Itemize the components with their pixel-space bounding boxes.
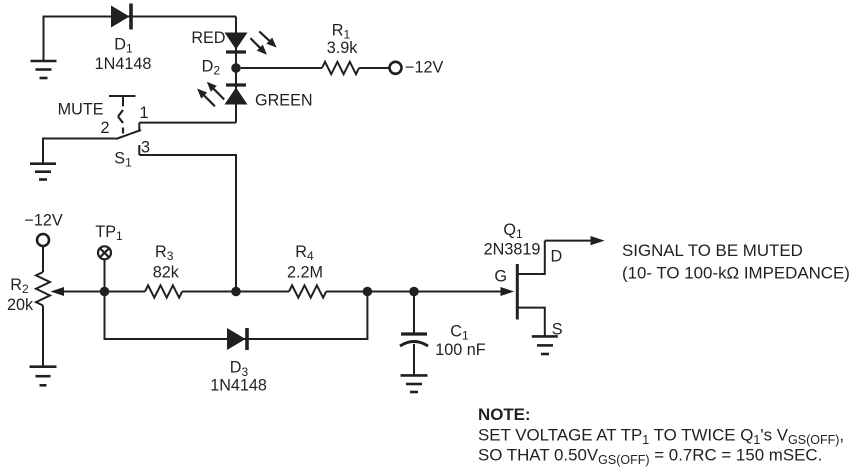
wire D3 branch xyxy=(105,292,368,340)
ground below S1 xyxy=(30,164,56,180)
node TP1 junction dot xyxy=(100,287,110,297)
transistor Q1 gate arrow xyxy=(501,287,515,296)
svg-text:R3: R3 xyxy=(155,243,174,263)
wire D2 node to R1 xyxy=(241,67,322,69)
wire R1 to terminal xyxy=(359,67,390,69)
wire TP1 to rail xyxy=(104,259,106,291)
test point TP1 symbol xyxy=(98,246,111,259)
svg-text:(10- TO 100-kΩ IMPEDANCE): (10- TO 100-kΩ IMPEDANCE) xyxy=(622,264,850,283)
svg-text:3.9k: 3.9k xyxy=(327,39,359,57)
ground below C1 xyxy=(401,375,428,392)
node D2 junction dot xyxy=(231,63,241,73)
svg-text:−12V: −12V xyxy=(405,58,443,76)
svg-text:MUTE: MUTE xyxy=(58,100,104,118)
wire R2 to ground xyxy=(42,306,44,367)
svg-text:RED: RED xyxy=(191,29,225,47)
svg-text:1: 1 xyxy=(139,104,148,122)
diode D3 xyxy=(227,328,247,350)
diode D1 xyxy=(111,4,131,30)
svg-text:SIGNAL TO BE MUTED: SIGNAL TO BE MUTED xyxy=(622,241,803,260)
svg-text:2N3819: 2N3819 xyxy=(484,240,541,258)
LED D2 green (bottom) xyxy=(225,85,248,105)
svg-text:GREEN: GREEN xyxy=(255,91,313,109)
svg-text:S: S xyxy=(552,320,563,338)
svg-text:G: G xyxy=(494,268,507,286)
switch S1 pin1 contact xyxy=(138,123,140,131)
svg-text:C1: C1 xyxy=(450,323,469,343)
svg-text:1N4148: 1N4148 xyxy=(210,376,267,394)
svg-text:SO THAT 0.50VGS(OFF) = 0.7RC =: SO THAT 0.50VGS(OFF) = 0.7RC = 150 mSEC. xyxy=(478,446,822,468)
svg-text:100 nF: 100 nF xyxy=(435,341,486,359)
wire drain output arrow xyxy=(545,236,605,245)
switch S1 actuator dashed link xyxy=(118,110,123,117)
switch S1 pin3 contact xyxy=(138,145,140,155)
svg-text:Q1: Q1 xyxy=(503,221,523,241)
svg-text:D2: D2 xyxy=(202,58,221,78)
resistor R3 xyxy=(145,285,182,297)
LED D2 red (top) xyxy=(225,33,248,53)
terminal -12V (left) xyxy=(37,234,49,246)
svg-text:20k: 20k xyxy=(7,296,34,314)
capacitor C1 xyxy=(400,292,428,376)
wire R3 to node xyxy=(182,291,289,293)
svg-text:3: 3 xyxy=(141,139,150,157)
switch S1 actuator T-bar xyxy=(109,95,136,97)
svg-text:1N4148: 1N4148 xyxy=(95,55,152,73)
red LED emission arrows xyxy=(250,31,276,54)
svg-text:D1: D1 xyxy=(114,36,133,56)
wire LED column xyxy=(235,17,237,123)
svg-text:2.2M: 2.2M xyxy=(287,264,323,282)
wire lever to ground xyxy=(43,139,116,164)
svg-text:S1: S1 xyxy=(114,150,132,170)
wire R4 to gate xyxy=(326,291,502,293)
svg-text:2: 2 xyxy=(100,119,109,137)
resistor R1 xyxy=(322,62,359,74)
transistor Q1 channel bar xyxy=(516,264,519,320)
transistor Q1 source lead xyxy=(519,308,545,337)
node C1 junction dot xyxy=(409,287,419,297)
wire rail TP1 to R3 xyxy=(105,291,146,293)
svg-text:TP1: TP1 xyxy=(95,223,123,243)
potentiometer R2 xyxy=(36,272,50,306)
svg-text:R2: R2 xyxy=(10,276,29,296)
svg-text:SET VOLTAGE AT TP1 TO TWICE Q1: SET VOLTAGE AT TP1 TO TWICE Q1's VGS(OFF… xyxy=(478,426,844,448)
wire pin3 to rail xyxy=(139,155,236,292)
ground below Q1 source xyxy=(532,336,558,354)
transistor Q1 drain lead xyxy=(519,241,545,274)
ground top-left xyxy=(31,61,57,78)
node rail/switch junction dot xyxy=(231,287,241,297)
svg-text:82k: 82k xyxy=(153,264,180,282)
node D3 right junction dot xyxy=(363,287,373,297)
svg-text:−12V: −12V xyxy=(24,211,62,229)
resistor R4 xyxy=(289,285,326,297)
svg-text:NOTE:: NOTE: xyxy=(478,405,531,424)
green LED emission arrows xyxy=(197,82,224,107)
wire ground to D1 anode and top rail xyxy=(44,17,237,62)
terminal -12V (top right) xyxy=(390,62,402,74)
ground below R2 xyxy=(30,367,57,386)
R2 wiper arrow xyxy=(51,287,105,296)
svg-text:R4: R4 xyxy=(295,243,314,263)
svg-text:D: D xyxy=(551,248,563,266)
wire LED column to switch pin1 xyxy=(139,122,236,124)
wire terminal to R2 xyxy=(42,246,44,272)
switch S1 lever xyxy=(116,130,141,139)
